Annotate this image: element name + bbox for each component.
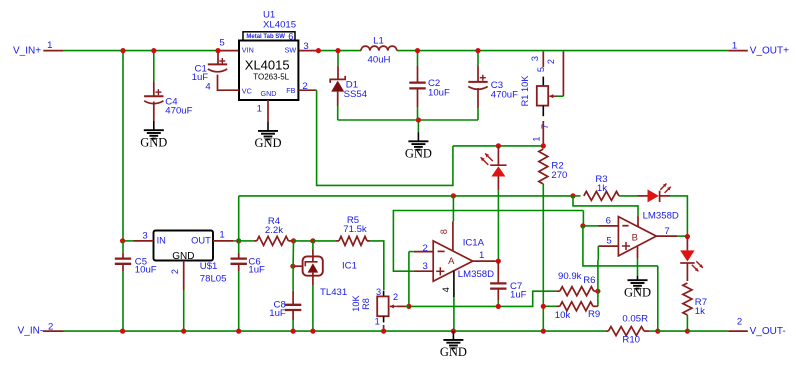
- svg-text:VC: VC: [242, 87, 252, 96]
- svg-text:2.2k: 2.2k: [265, 225, 283, 236]
- svg-text:2: 2: [393, 292, 398, 302]
- svg-text:3: 3: [376, 287, 381, 297]
- svg-text:GND: GND: [261, 89, 277, 98]
- svg-text:1uF: 1uF: [269, 308, 286, 319]
- svg-text:1k: 1k: [695, 306, 705, 317]
- svg-text:GND: GND: [405, 147, 432, 161]
- svg-text:GND: GND: [172, 251, 194, 262]
- svg-text:1: 1: [47, 40, 52, 51]
- svg-text:90.9k: 90.9k: [558, 271, 582, 282]
- svg-text:0.05R: 0.05R: [622, 314, 648, 325]
- svg-text:6: 6: [606, 215, 611, 226]
- svg-text:GND: GND: [624, 285, 651, 299]
- svg-text:A: A: [448, 255, 455, 266]
- svg-text:10uF: 10uF: [428, 87, 450, 98]
- svg-text:U$1: U$1: [200, 261, 218, 272]
- svg-text:7: 7: [664, 226, 669, 237]
- svg-text:270: 270: [551, 170, 567, 181]
- svg-text:LM358D: LM358D: [643, 211, 679, 222]
- svg-text:78L05: 78L05: [200, 273, 227, 284]
- svg-text:1: 1: [532, 136, 542, 141]
- svg-text:R9: R9: [588, 309, 600, 320]
- svg-text:470uF: 470uF: [491, 89, 518, 100]
- svg-text:2: 2: [546, 59, 556, 64]
- svg-text:3: 3: [303, 41, 308, 52]
- svg-text:3: 3: [530, 56, 540, 61]
- svg-text:5: 5: [606, 235, 611, 246]
- svg-text:R8: R8: [361, 298, 371, 310]
- svg-text:8: 8: [439, 229, 449, 234]
- svg-text:7: 7: [540, 124, 550, 129]
- svg-text:3: 3: [423, 261, 428, 272]
- svg-text:1: 1: [375, 316, 380, 326]
- svg-text:R10: R10: [622, 335, 640, 346]
- svg-text:1k: 1k: [597, 183, 607, 194]
- svg-text:GND: GND: [440, 345, 467, 359]
- svg-text:2: 2: [423, 243, 428, 254]
- svg-text:1: 1: [219, 230, 224, 241]
- svg-text:1: 1: [257, 104, 262, 115]
- svg-text:10K: 10K: [351, 294, 361, 311]
- svg-text:V_IN+: V_IN+: [13, 46, 41, 57]
- svg-text:B: B: [632, 232, 638, 243]
- svg-text:1uF: 1uF: [248, 265, 265, 276]
- svg-text:V_IN-: V_IN-: [18, 326, 44, 337]
- svg-text:10k: 10k: [555, 310, 571, 321]
- svg-text:R1 10K: R1 10K: [520, 75, 530, 107]
- svg-text:1: 1: [479, 250, 484, 261]
- svg-text:Metal Tab SW: Metal Tab SW: [246, 34, 285, 40]
- svg-text:VIN: VIN: [242, 45, 254, 54]
- svg-text:SS54: SS54: [344, 89, 368, 100]
- svg-text:R6: R6: [583, 275, 595, 286]
- svg-text:6: 6: [288, 32, 293, 42]
- svg-text:3: 3: [142, 231, 147, 242]
- svg-text:2: 2: [737, 317, 742, 328]
- svg-text:1uF: 1uF: [510, 290, 527, 301]
- svg-text:XL4015: XL4015: [245, 57, 290, 72]
- svg-text:FB: FB: [286, 86, 295, 95]
- svg-text:1: 1: [732, 41, 737, 52]
- svg-text:OUT: OUT: [191, 235, 211, 245]
- svg-text:IN: IN: [157, 235, 166, 245]
- svg-text:TL431: TL431: [320, 287, 347, 298]
- svg-text:IC1: IC1: [342, 261, 357, 272]
- svg-text:L1: L1: [373, 36, 384, 47]
- svg-text:GND: GND: [140, 135, 167, 149]
- svg-text:5: 5: [219, 38, 224, 49]
- svg-text:XL4015: XL4015: [263, 20, 296, 31]
- svg-text:SW: SW: [285, 45, 297, 54]
- svg-text:IC1A: IC1A: [463, 237, 485, 248]
- svg-text:71.5k: 71.5k: [343, 224, 367, 235]
- svg-text:1uF: 1uF: [192, 72, 209, 83]
- svg-text:TO263-5L: TO263-5L: [253, 73, 289, 82]
- svg-text:V_OUT-: V_OUT-: [750, 326, 786, 337]
- svg-text:4: 4: [441, 287, 451, 292]
- svg-text:5: 5: [536, 67, 546, 72]
- svg-text:LM358D: LM358D: [458, 269, 494, 280]
- svg-text:470uF: 470uF: [165, 106, 192, 117]
- svg-text:40uH: 40uH: [368, 55, 391, 66]
- svg-text:10uF: 10uF: [135, 265, 157, 276]
- svg-text:2: 2: [170, 269, 180, 274]
- svg-text:GND: GND: [254, 136, 281, 150]
- svg-text:V_OUT+: V_OUT+: [750, 46, 789, 57]
